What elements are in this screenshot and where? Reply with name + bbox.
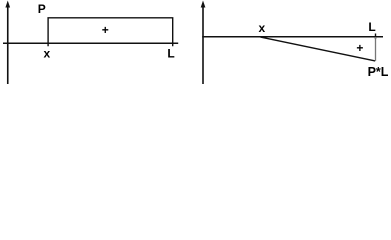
svg-text:x: x <box>258 21 265 35</box>
svg-text:+: + <box>356 41 363 55</box>
svg-text:L: L <box>368 20 375 34</box>
svg-text:+: + <box>102 23 109 37</box>
svg-text:L: L <box>167 47 174 61</box>
svg-text:P: P <box>38 2 46 16</box>
svg-text:P*L: P*L <box>368 65 389 79</box>
svg-text:x: x <box>43 46 50 60</box>
